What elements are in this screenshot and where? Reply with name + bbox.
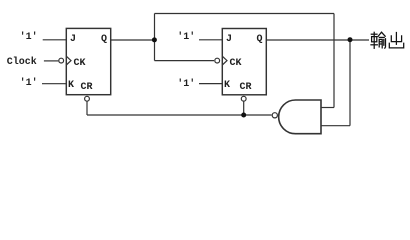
svg-text:Q: Q — [101, 34, 107, 45]
svg-text:K: K — [68, 80, 74, 91]
svg-text:CK: CK — [230, 58, 242, 69]
svg-text:'1': '1' — [177, 31, 195, 43]
svg-text:'1': '1' — [177, 78, 195, 90]
svg-text:J: J — [226, 34, 232, 45]
svg-text:Q: Q — [257, 34, 263, 45]
svg-text:CK: CK — [74, 58, 86, 69]
svg-text:'1': '1' — [20, 31, 38, 43]
svg-text:'1': '1' — [20, 77, 38, 89]
svg-text:CR: CR — [81, 82, 93, 93]
svg-text:Clock: Clock — [7, 56, 37, 68]
svg-text:K: K — [224, 80, 230, 91]
svg-text:CR: CR — [240, 82, 252, 93]
svg-text:J: J — [70, 34, 76, 45]
